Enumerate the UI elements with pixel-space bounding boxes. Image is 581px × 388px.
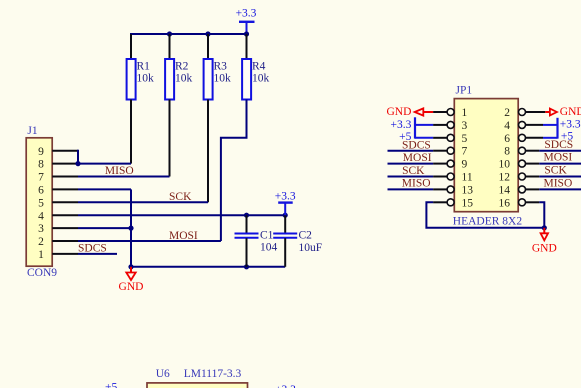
- pin 13 JP1: [447, 186, 454, 193]
- svg-text:MISO: MISO: [105, 165, 134, 177]
- wire R3 riser: [207, 34, 209, 59]
- svg-text:10k: 10k: [252, 73, 270, 85]
- svg-text:MISO: MISO: [544, 178, 573, 190]
- wire pin6 to gnd column: [78, 188, 131, 190]
- svg-text:LM1117-3.3: LM1117-3.3: [184, 368, 242, 380]
- pin 5 JP1: [447, 134, 454, 141]
- wire MOSI pin2 to R4 leg: [78, 240, 221, 242]
- wire SDCS stub: [78, 253, 117, 255]
- wire R2 riser: [169, 34, 171, 59]
- svg-text:6: 6: [38, 185, 44, 197]
- svg-text:10: 10: [499, 159, 511, 171]
- wire pin8 to R1: [78, 163, 131, 165]
- svg-text:6: 6: [504, 133, 510, 145]
- svg-text:CON9: CON9: [27, 267, 57, 279]
- svg-text:+3.3: +3.3: [236, 8, 257, 20]
- svg-text:10uF: 10uF: [299, 242, 323, 254]
- wire MISO right: [539, 188, 581, 190]
- pin 1 stub J1: [52, 253, 78, 255]
- node junction C2 top: [283, 213, 288, 218]
- wire pin15 to gnd run: [426, 202, 544, 228]
- capacitor C2: [273, 215, 322, 267]
- svg-text:9: 9: [38, 146, 44, 158]
- svg-text:5: 5: [38, 197, 44, 209]
- svg-text:C2: C2: [299, 230, 313, 242]
- pin 7 stub J1: [52, 176, 78, 178]
- regulator U6 labels: [156, 368, 242, 380]
- svg-text:HEADER 8X2: HEADER 8X2: [453, 215, 523, 227]
- node junction pin9/pin8: [75, 161, 80, 166]
- svg-text:R1: R1: [137, 61, 151, 73]
- svg-text:SCK: SCK: [544, 165, 567, 177]
- wire MOSI left: [388, 163, 434, 165]
- svg-text:16: 16: [499, 197, 511, 209]
- wire SDCS right: [539, 150, 581, 152]
- node junction C1 top: [244, 213, 249, 218]
- pin 4 stub J1: [52, 214, 78, 216]
- svg-text:5: 5: [462, 133, 468, 145]
- svg-text:SDCS: SDCS: [402, 140, 431, 152]
- wire SCK left: [388, 176, 434, 178]
- node junction R3 top: [205, 31, 210, 36]
- svg-text:9: 9: [462, 159, 468, 171]
- svg-text:SCK: SCK: [402, 165, 425, 177]
- svg-text:2: 2: [38, 236, 44, 248]
- pin 3 stub J1: [52, 227, 78, 229]
- pin 11 JP1: [447, 173, 454, 180]
- svg-text:+3.3: +3.3: [275, 190, 296, 202]
- wire R4 riser: [246, 34, 248, 59]
- wire pin9 down to pin8: [77, 150, 79, 164]
- svg-text:+3.3: +3.3: [275, 384, 296, 388]
- svg-text:1: 1: [462, 107, 468, 119]
- svg-text:10k: 10k: [175, 73, 193, 85]
- pin 9 JP1: [447, 160, 454, 167]
- resistor R4: [242, 59, 269, 100]
- svg-text:U6: U6: [156, 368, 170, 380]
- pin 9 stub J1: [52, 150, 78, 152]
- pin 10 JP1: [519, 160, 526, 167]
- wire R1 bottom lead: [130, 100, 132, 164]
- svg-text:R3: R3: [214, 61, 228, 73]
- svg-text:+3.3: +3.3: [560, 119, 581, 131]
- power port GND left: [386, 106, 433, 118]
- node junction pin3 gnd: [128, 226, 133, 231]
- svg-text:4: 4: [504, 120, 510, 132]
- svg-text:8: 8: [504, 146, 510, 158]
- power port +3.3 right: [543, 118, 581, 139]
- node junction R2 top: [167, 31, 172, 36]
- power port +5 right: [543, 131, 573, 143]
- svg-text:8: 8: [38, 159, 44, 171]
- pin 8 JP1: [519, 147, 526, 154]
- svg-text:1: 1: [38, 249, 44, 261]
- svg-text:R4: R4: [252, 61, 266, 73]
- ground symbol J1 side: [119, 267, 144, 293]
- svg-text:SDCS: SDCS: [544, 139, 573, 151]
- svg-text:2: 2: [504, 107, 510, 119]
- wire +3.3 row to C2: [78, 214, 285, 216]
- wire R1 riser: [130, 34, 132, 59]
- svg-text:10k: 10k: [137, 73, 155, 85]
- pin 12 JP1: [519, 173, 526, 180]
- pin 4 JP1: [519, 121, 526, 128]
- wire pin16 to gnd run: [539, 202, 544, 228]
- pin 2 stub J1: [52, 240, 78, 242]
- wire MISO left: [388, 188, 434, 190]
- wire gnd bottom row: [131, 266, 285, 268]
- power +3.3 top: [236, 8, 257, 35]
- svg-text:C1: C1: [260, 230, 274, 242]
- svg-text:MOSI: MOSI: [403, 152, 432, 164]
- svg-text:7: 7: [38, 172, 44, 184]
- node junction R4 top: [244, 31, 249, 36]
- wire gnd column: [130, 189, 132, 266]
- regulator U6 body top: [147, 383, 248, 388]
- pin 15 JP1: [447, 199, 454, 206]
- header JP1: [453, 85, 523, 228]
- pin 6 JP1: [519, 134, 526, 141]
- svg-text:SCK: SCK: [169, 191, 192, 203]
- svg-text:GND: GND: [532, 243, 557, 255]
- svg-text:4: 4: [38, 210, 44, 222]
- capacitor C1: [235, 215, 278, 267]
- svg-text:14: 14: [499, 184, 511, 196]
- svg-text:11: 11: [462, 172, 473, 184]
- pin 16 JP1: [519, 199, 526, 206]
- pin 3 JP1: [447, 121, 454, 128]
- wire R3 bottom lead: [207, 100, 209, 203]
- wire SCK pin5 to R3: [78, 201, 208, 203]
- svg-text:7: 7: [462, 146, 468, 158]
- svg-text:R2: R2: [175, 61, 189, 73]
- power port +3.3 left: [391, 117, 434, 138]
- svg-text:15: 15: [462, 197, 474, 209]
- wire top rail: [130, 33, 247, 35]
- wire SDCS left: [388, 150, 434, 152]
- resistor R2: [165, 59, 192, 100]
- pin 1 JP1: [447, 109, 454, 116]
- pin 8 stub J1: [52, 163, 78, 165]
- svg-text:+3.3: +3.3: [391, 119, 412, 131]
- pin 2 JP1: [519, 109, 526, 116]
- node junction C1 bottom: [244, 264, 249, 269]
- svg-text:GND: GND: [119, 281, 144, 293]
- power +3.3 mid: [275, 190, 296, 215]
- svg-text:3: 3: [462, 120, 468, 132]
- svg-text:+5: +5: [105, 381, 117, 388]
- wire MOSI right: [539, 163, 581, 165]
- svg-text:12: 12: [499, 172, 511, 184]
- svg-text:GND: GND: [560, 106, 581, 118]
- pin 6 stub J1: [52, 188, 78, 190]
- svg-text:10k: 10k: [214, 73, 232, 85]
- power port +5 left: [399, 131, 433, 143]
- node junction gnd bottom: [128, 264, 133, 269]
- svg-text:13: 13: [462, 184, 474, 196]
- svg-text:MOSI: MOSI: [544, 152, 573, 164]
- svg-text:JP1: JP1: [456, 85, 473, 97]
- resistor R1: [127, 59, 154, 100]
- node junction gnd run: [542, 225, 547, 230]
- svg-text:J1: J1: [27, 125, 37, 137]
- wire R4 bottom jog: [221, 100, 247, 242]
- connector J1: [26, 125, 57, 279]
- power port GND right: [545, 106, 581, 118]
- svg-text:GND: GND: [386, 106, 411, 118]
- wire MISO pin7 to R2: [78, 176, 170, 178]
- svg-text:104: 104: [260, 242, 278, 254]
- wire SCK right: [539, 176, 581, 178]
- svg-text:SDCS: SDCS: [78, 243, 107, 255]
- pin 14 JP1: [519, 186, 526, 193]
- svg-text:MISO: MISO: [402, 178, 431, 190]
- pin 5 stub J1: [52, 201, 78, 203]
- wire R2 bottom lead: [169, 100, 171, 177]
- ground symbol JP1 side: [532, 228, 557, 255]
- svg-text:3: 3: [38, 223, 44, 235]
- svg-text:MOSI: MOSI: [169, 230, 198, 242]
- resistor R3: [204, 59, 231, 100]
- pin 7 JP1: [447, 147, 454, 154]
- wire pin3 to gnd column: [78, 227, 131, 229]
